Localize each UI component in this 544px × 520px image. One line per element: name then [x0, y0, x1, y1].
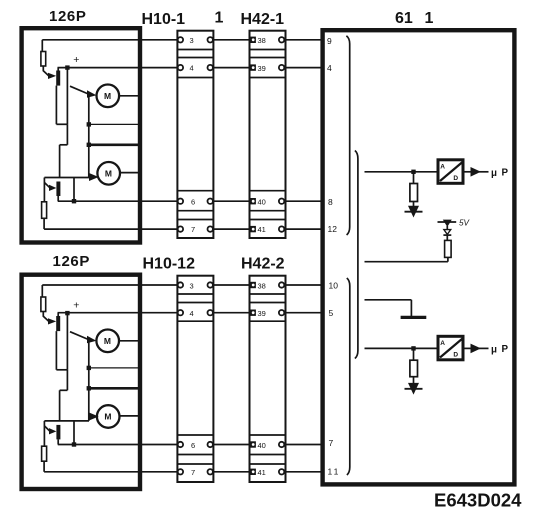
- wire to ground arrow: [413, 202, 415, 209]
- H42-2 pin 39 terminal left: [250, 310, 256, 316]
- H42-1 pin 41 terminal right: [279, 226, 284, 231]
- H10-1 pin 6 terminal left: [178, 199, 183, 204]
- H42-2 row line: [250, 293, 286, 295]
- wire 126P to H10-12 pin 3: [42, 284, 178, 286]
- junction node (pin 6 wire, bottom box): [72, 442, 76, 446]
- motor M (top box, lower): [97, 162, 120, 185]
- H10-1 row line: [177, 49, 213, 51]
- wire H42-2 pin 40 to box 61 pin 7: [284, 444, 323, 446]
- svg-text:10: 10: [329, 281, 339, 291]
- H10-12 pin 7 terminal right: [208, 469, 213, 474]
- wire resistor stub: [413, 172, 415, 184]
- box 126P (bottom): [22, 275, 140, 489]
- svg-text:39: 39: [258, 64, 266, 73]
- H42-1 pin 40 terminal left: [250, 198, 256, 204]
- wire motor bus tap 2: [89, 143, 141, 146]
- arrow to microprocessor 2: [471, 344, 481, 354]
- svg-text:μ: μ: [491, 168, 497, 179]
- wire 126P to H10-12 pin 7: [44, 471, 178, 473]
- junction node (motor bus 1, bottom box): [87, 366, 91, 370]
- wire motor drop: [88, 95, 90, 177]
- resistor (pot track 1): [41, 52, 46, 67]
- wiper arrow (motor 2): [89, 173, 99, 181]
- H42-1 pin 41 terminal left: [250, 226, 256, 232]
- box 61 (control unit): [323, 30, 515, 484]
- H42-2 pin 38 terminal right: [279, 282, 284, 287]
- svg-text:9: 9: [327, 36, 332, 46]
- svg-text:P: P: [502, 344, 509, 355]
- svg-text:H10-12: H10-12: [143, 256, 196, 273]
- wire jog 2 (bottom box): [60, 389, 68, 391]
- svg-text:126P: 126P: [49, 8, 86, 25]
- wire H10-1 pin 7 to H42-1 pin 41: [213, 228, 251, 230]
- H10-1 pin 4 terminal right: [208, 65, 213, 70]
- wire bar 2 to pin 6 wire (bottom box): [57, 439, 59, 444]
- svg-text:D: D: [453, 175, 458, 182]
- wire ground drop: [410, 300, 412, 317]
- wiper arrow (pot 2, bottom box): [49, 428, 56, 434]
- wiper arrow (motor 4): [89, 413, 99, 421]
- H10-1 pin 6 terminal right: [208, 199, 213, 204]
- wire wiper arm (pot 2): [44, 183, 49, 188]
- H10-1 row line: [177, 57, 213, 59]
- H42-2 row line: [250, 463, 286, 465]
- connector bracket (pins 9,4,8,12): [346, 36, 349, 235]
- wire below contact bar: [55, 86, 57, 125]
- 5V supply arrow: [443, 220, 452, 227]
- junction node (motor bus 1): [87, 122, 91, 126]
- wire pot track 2 bottom: [43, 218, 45, 229]
- H42-2 pin 38 terminal left: [250, 282, 256, 288]
- connector bracket (analog lines): [355, 151, 358, 359]
- svg-text:M: M: [104, 412, 111, 422]
- wiper arrow (pot 2): [49, 185, 56, 191]
- wire 126P to H10-1 pin 6: [58, 200, 178, 202]
- wire diode to resistor: [446, 235, 448, 240]
- wire lower drop: [59, 145, 61, 178]
- wire supply drop: [66, 68, 68, 125]
- H10-1 pin 3 terminal right: [208, 37, 213, 42]
- H42-2 row line: [250, 320, 286, 322]
- wire H10-12 pin 7 to H42-2 pin 41: [213, 471, 251, 473]
- wire resistor to wiper arm (bottom box): [43, 312, 49, 322]
- H10-12 row line: [177, 320, 213, 322]
- box 126P (top): [22, 28, 140, 242]
- svg-text:D: D: [453, 351, 458, 358]
- wire mid drop (bottom box): [66, 370, 68, 391]
- wire jog 1: [56, 123, 67, 125]
- svg-text:7: 7: [191, 468, 195, 477]
- H42-2 row line: [250, 454, 286, 456]
- H10-12 pin 6 terminal left: [178, 442, 183, 447]
- arrow to microprocessor 1: [471, 167, 481, 177]
- wire jog 2: [60, 144, 68, 146]
- wire 5V to diode: [446, 226, 448, 230]
- motor M (bottom box, upper): [96, 330, 119, 353]
- wire H42-1 pin 41 to box 61 pin 12: [284, 228, 323, 230]
- wire 126P to H10-1 pin 3: [42, 39, 178, 41]
- H10-1 pin 4 terminal left: [178, 65, 183, 70]
- wire wiper bus drop (bottom box): [43, 421, 45, 446]
- wire 5V branch to connector: [365, 261, 448, 263]
- wire wiper bus (pot 2): [44, 177, 89, 179]
- H10-1 row line: [177, 210, 213, 212]
- wire 126P to H10-1 pin 7: [44, 228, 178, 230]
- connector H42-2 body: [250, 276, 286, 482]
- H10-12 row line: [177, 463, 213, 465]
- H42-1 row line: [250, 219, 286, 221]
- wire bar to wiper wire (bottom box): [57, 313, 59, 316]
- H10-1 row line: [177, 219, 213, 221]
- H42-1 row line: [250, 210, 286, 212]
- H42-1 pin 40 terminal right: [279, 199, 284, 204]
- svg-text:4: 4: [190, 64, 194, 73]
- svg-text:11: 11: [328, 466, 341, 476]
- svg-text:4: 4: [327, 63, 332, 73]
- H10-12 row line: [177, 434, 213, 436]
- wire motor 3 to box edge: [119, 340, 141, 342]
- H42-2 pin 39 terminal right: [279, 310, 284, 315]
- wire motor 3 wiper diagonal: [70, 332, 88, 339]
- svg-text:A: A: [440, 340, 445, 347]
- H10-12 pin 4 terminal left: [178, 310, 183, 315]
- A/D converter 1 box: [438, 160, 463, 184]
- H10-12 pin 4 terminal right: [208, 310, 213, 315]
- svg-text:40: 40: [258, 197, 266, 206]
- wire wiper bus (pot 2, bottom box): [44, 420, 89, 422]
- svg-text:39: 39: [258, 309, 266, 318]
- wire H10-1 pin 3 to H42-1 pin 38: [213, 39, 251, 41]
- H42-1 pin 40 terminal hole: [252, 200, 255, 203]
- wire supply drop (bottom box): [66, 313, 68, 370]
- resistor (pull-down, channel 1): [410, 184, 418, 202]
- H42-2 pin 40 terminal left: [250, 441, 256, 447]
- H10-1 pin 7 terminal right: [208, 226, 213, 231]
- H42-1 pin 41 terminal hole: [252, 228, 255, 231]
- wire pot track 1 top: [41, 40, 43, 52]
- resistor (5V reference): [445, 240, 452, 257]
- wire H10-1 pin 6 to H42-1 pin 40: [213, 200, 251, 202]
- svg-text:7: 7: [191, 225, 195, 234]
- wiper arrow (motor 3): [87, 336, 96, 344]
- resistor (pot track 1, bottom box): [41, 297, 46, 312]
- junction node (motor bus 2): [87, 143, 91, 147]
- wire 126P to H10-12 pin 6: [58, 444, 178, 446]
- wire pot track 2 bottom (bottom box): [43, 461, 45, 472]
- motor M (top box, upper): [97, 85, 120, 108]
- svg-text:8: 8: [328, 197, 333, 207]
- wire mid drop: [66, 124, 68, 145]
- connector H10-1 body: [177, 31, 213, 238]
- wire motor 2 to box edge: [120, 172, 141, 174]
- svg-text:+: +: [73, 300, 79, 312]
- H42-1 pin 38 terminal right: [279, 37, 284, 42]
- wire motor bus tap 1: [89, 123, 141, 125]
- H42-2 row line: [250, 302, 286, 304]
- H42-1 pin 38 terminal left: [250, 37, 256, 43]
- wire below contact bar (bottom box): [55, 331, 57, 370]
- H42-2 pin 41 terminal right: [279, 469, 284, 474]
- wire motor bus tap 2 (bottom box): [89, 387, 141, 390]
- svg-text:1: 1: [215, 10, 224, 27]
- junction node (pin 6 wire): [72, 199, 76, 203]
- ground (channel 1) arrow: [408, 206, 419, 218]
- wire to ground symbol: [365, 299, 412, 301]
- wiper contact bar (pot 2, bottom box): [56, 425, 60, 440]
- H42-2 pin 39 terminal hole: [252, 311, 255, 314]
- motor M (bottom box, lower): [97, 405, 120, 428]
- wire H10-1 pin 4 to H42-1 pin 39: [213, 67, 251, 69]
- svg-text:E643D024: E643D024: [434, 490, 522, 511]
- wire motor drop (bottom box): [88, 340, 90, 421]
- svg-text:38: 38: [258, 36, 266, 45]
- svg-text:H42-2: H42-2: [241, 256, 285, 273]
- H42-1 row line: [250, 77, 286, 79]
- resistor (pot track 2): [42, 202, 47, 219]
- H10-12 row line: [177, 293, 213, 295]
- svg-text:7: 7: [329, 438, 334, 448]
- 5V supply bar: [438, 221, 457, 223]
- wire wiper bus drop: [43, 178, 45, 202]
- wire bracket drop to pin 6 wire (bottom box): [73, 421, 75, 445]
- wire to A/D converter 1: [365, 171, 438, 173]
- svg-text:6: 6: [191, 197, 195, 206]
- wire motor 4 to box edge: [120, 415, 141, 417]
- svg-text:5V: 5V: [459, 218, 471, 227]
- H10-1 pin 7 terminal left: [178, 226, 183, 231]
- svg-text:4: 4: [190, 309, 194, 318]
- svg-text:41: 41: [258, 225, 266, 234]
- H42-1 pin 39 terminal hole: [252, 66, 255, 69]
- H42-2 pin 38 terminal hole: [252, 284, 255, 287]
- H42-2 pin 41 terminal hole: [252, 470, 255, 473]
- svg-text:40: 40: [258, 441, 266, 450]
- svg-text:6: 6: [191, 441, 195, 450]
- svg-text:M: M: [104, 91, 111, 101]
- wire motor bus tap 1 (bottom box): [89, 367, 141, 369]
- wire bar 2 to pin 6 wire: [57, 196, 59, 201]
- junction node (motor bus 2, bottom box): [87, 386, 91, 390]
- connector H42-1 body: [250, 31, 286, 238]
- wire 126P to H10-1 pin 4: [58, 67, 179, 69]
- wire H42-1 pin 38 to box 61 pin 9: [284, 39, 323, 41]
- svg-text:P: P: [502, 167, 509, 178]
- svg-text:μ: μ: [491, 344, 497, 355]
- wire arrow tail 2: [479, 347, 489, 349]
- diode (5V reference) cathode bar: [443, 234, 451, 236]
- wiper arrow (pot 1, bottom box): [48, 318, 56, 324]
- junction node (A/D 1 input): [411, 170, 415, 174]
- wire resistor stub 2: [413, 348, 415, 360]
- H10-12 pin 3 terminal left: [178, 282, 183, 287]
- H10-1 row line: [177, 77, 213, 79]
- H42-2 pin 40 terminal hole: [252, 443, 255, 446]
- H42-1 pin 38 terminal hole: [252, 38, 255, 41]
- wire jog 1 (bottom box): [56, 369, 67, 371]
- H42-1 row line: [250, 57, 286, 59]
- wire bar to wiper wire: [57, 68, 59, 71]
- wiper arrow (pot 1): [48, 73, 56, 79]
- svg-text:H42-1: H42-1: [241, 11, 285, 28]
- H42-2 pin 40 terminal right: [279, 442, 284, 447]
- wire lower drop (bottom box): [59, 390, 61, 421]
- H42-1 pin 39 terminal right: [279, 65, 284, 70]
- H10-12 row line: [177, 302, 213, 304]
- wire to A/D converter 2: [365, 347, 438, 349]
- svg-text:126P: 126P: [53, 253, 90, 270]
- A/D converter 2 box: [438, 336, 463, 360]
- wire H10-12 pin 4 to H42-2 pin 39: [213, 312, 251, 314]
- svg-text:3: 3: [190, 281, 194, 290]
- wire resistor down: [447, 257, 449, 261]
- H42-1 pin 39 terminal left: [250, 64, 256, 70]
- wiper contact bar (pot 1, bottom box): [56, 316, 60, 331]
- wiper contact bar (pot 1): [56, 71, 60, 86]
- wire pot track 1 top (bottom box): [41, 285, 43, 297]
- wire resistor to wiper arm: [43, 66, 49, 76]
- junction node (pot 1 wiper, bottom box): [65, 311, 69, 315]
- wire motor 1 wiper diagonal: [70, 86, 88, 93]
- ground (signal return) bar: [401, 316, 427, 319]
- junction node (A/D 2 input): [411, 346, 415, 350]
- svg-text:M: M: [104, 336, 111, 346]
- wire A/D 1 output: [465, 171, 471, 173]
- wire motor 1 to box edge: [119, 95, 140, 97]
- connector bracket (pins 10,5,7,11): [347, 278, 350, 475]
- H10-1 pin 3 terminal left: [178, 37, 183, 42]
- svg-text:5: 5: [329, 308, 334, 318]
- wire H42-2 pin 41 to box 61 pin 11: [284, 471, 323, 473]
- svg-text:12: 12: [328, 224, 338, 234]
- wire arrow tail 1: [479, 171, 489, 173]
- wire wiper arm (pot 2, bottom box): [44, 426, 49, 431]
- svg-text:+: +: [73, 54, 79, 66]
- wire to ground arrow 2: [413, 377, 415, 385]
- A/D converter 2 diagonal: [440, 339, 463, 358]
- wire 126P to H10-12 pin 4: [58, 312, 179, 314]
- H42-2 row line: [250, 434, 286, 436]
- svg-text:H10-1: H10-1: [142, 11, 186, 28]
- A/D converter 1 diagonal: [440, 162, 463, 181]
- svg-text:61: 61: [395, 10, 413, 27]
- svg-text:3: 3: [190, 36, 194, 45]
- ground (channel 2) bar: [405, 388, 423, 390]
- resistor (pot track 2, bottom box): [42, 446, 47, 461]
- svg-text:A: A: [440, 164, 445, 171]
- wire H10-12 pin 6 to H42-2 pin 40: [213, 444, 251, 446]
- H10-12 pin 7 terminal left: [178, 469, 183, 474]
- wire A/D 2 output: [465, 347, 471, 349]
- svg-text:1: 1: [425, 10, 434, 27]
- wiper contact bar (pot 2): [56, 182, 60, 197]
- wire H42-2 pin 39 to box 61 pin 5: [284, 312, 323, 314]
- wire H42-2 pin 38 to box 61 pin 10: [284, 284, 323, 286]
- junction node (pot 1 wiper): [65, 65, 69, 69]
- resistor (pull-down, channel 2): [410, 360, 418, 377]
- connector H10-12 body: [177, 276, 213, 482]
- wiper arrow (motor 1): [87, 90, 96, 98]
- H10-1 row line: [177, 190, 213, 192]
- svg-text:41: 41: [258, 468, 266, 477]
- H42-1 row line: [250, 190, 286, 192]
- H10-12 row line: [177, 454, 213, 456]
- wire bracket drop to pin 6 wire: [73, 178, 75, 202]
- svg-text:38: 38: [258, 281, 266, 290]
- svg-text:M: M: [105, 169, 112, 179]
- wire H42-1 pin 39 to box 61 pin 4: [284, 67, 323, 69]
- diode (5V reference) triangle: [444, 230, 451, 235]
- ground (channel 2) arrow: [408, 383, 419, 395]
- H42-1 row line: [250, 49, 286, 51]
- H10-12 pin 3 terminal right: [208, 282, 213, 287]
- H42-2 pin 41 terminal left: [250, 469, 256, 475]
- wire H42-1 pin 40 to box 61 pin 8: [284, 200, 323, 202]
- H10-12 pin 6 terminal right: [208, 442, 213, 447]
- ground (channel 1) bar: [405, 211, 423, 213]
- wire H10-12 pin 3 to H42-2 pin 38: [213, 284, 251, 286]
